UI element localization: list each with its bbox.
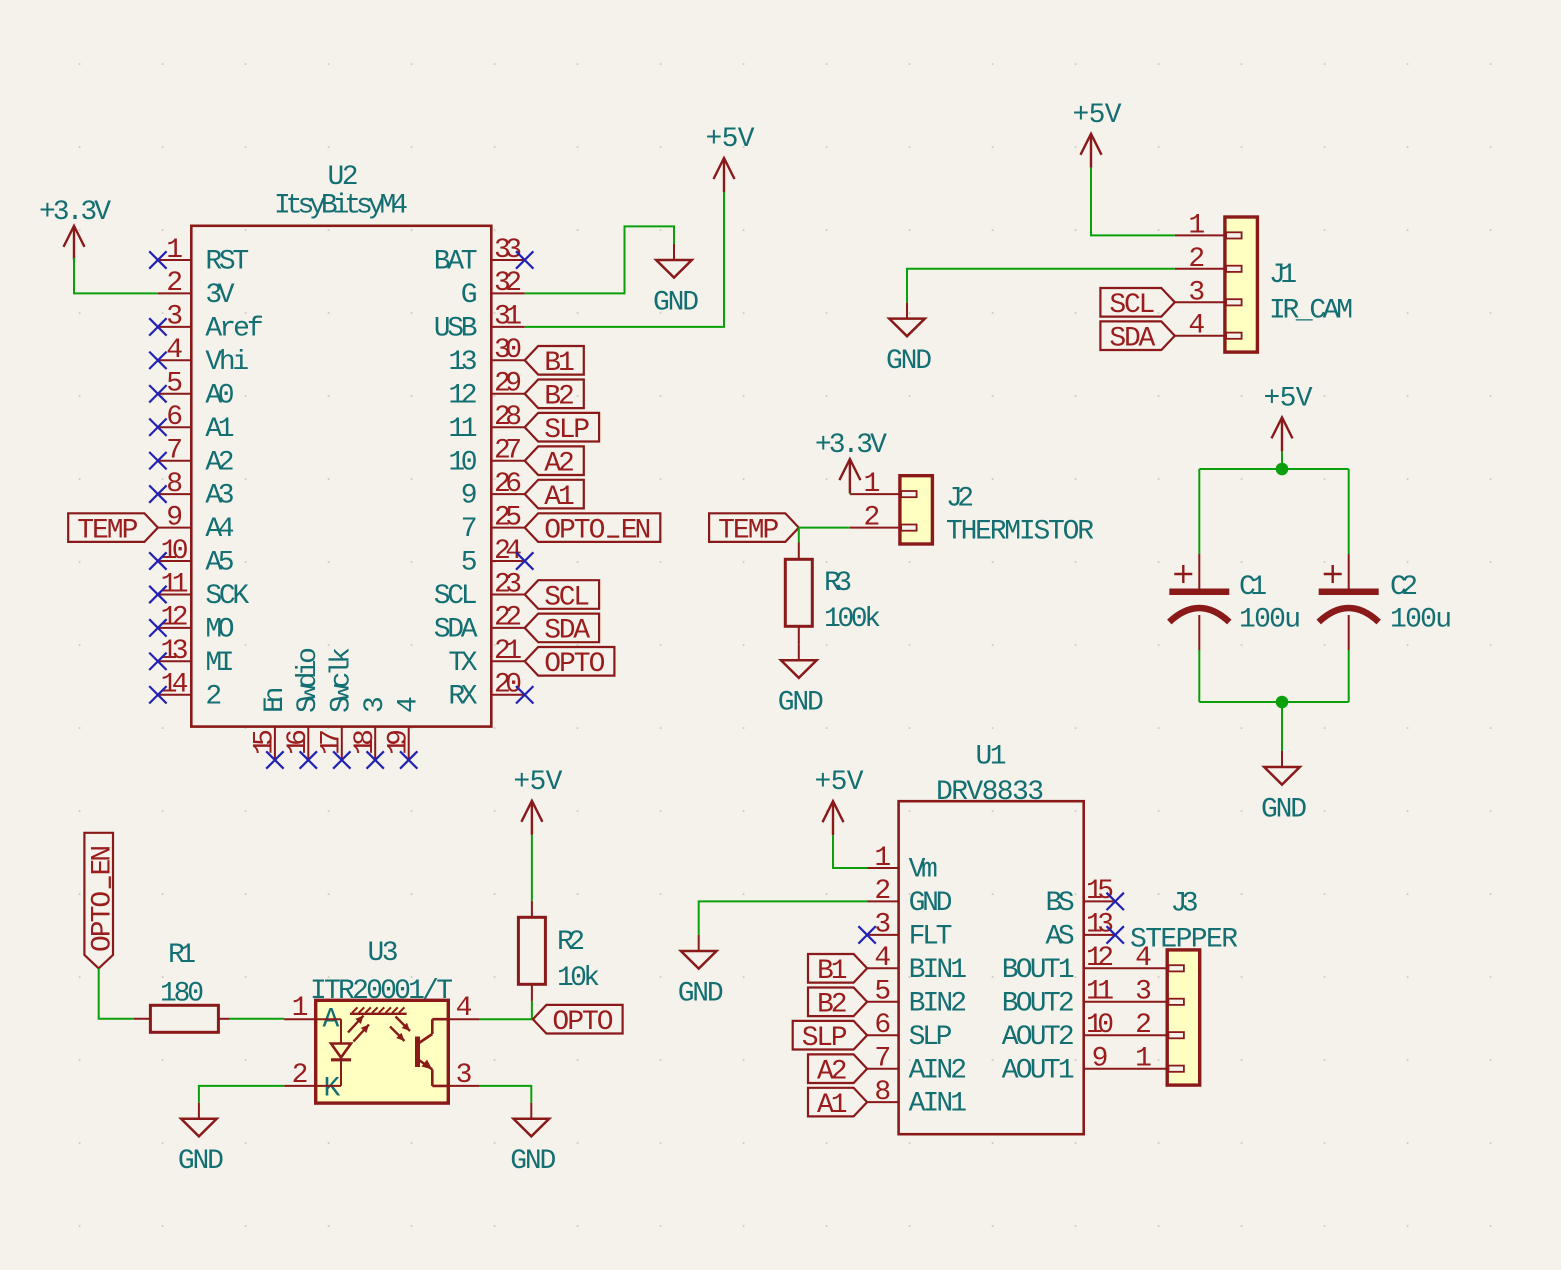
svg-text:A2: A2 [205,447,234,478]
global label SLP at U1 [793,1021,867,1054]
no-connect X at U2 pin 33 [516,251,533,268]
svg-text:THERMISTOR: THERMISTOR [946,517,1094,548]
svg-text:12: 12 [1086,943,1114,974]
svg-text:11: 11 [161,569,189,600]
U1 pin 10 AOUT2 [1002,1010,1168,1053]
svg-text:A1: A1 [817,1090,848,1121]
global label OPTO at U2 [525,647,615,680]
svg-text:2: 2 [1135,1010,1152,1041]
R1 right lead [218,1018,229,1020]
svg-text:4: 4 [166,335,183,366]
U2 pin 6 A1 [158,402,235,445]
svg-text:24: 24 [494,536,522,567]
svg-text:1: 1 [1135,1044,1152,1075]
svg-text:EN: EN [621,515,652,546]
svg-text:16: 16 [283,729,314,755]
ground at U3 pin 3 [510,1103,556,1177]
svg-text:OPTO: OPTO [87,891,118,952]
J1 pin 2 [1175,244,1225,275]
R3 bottom lead [798,626,800,644]
svg-text:BAT: BAT [434,247,478,278]
svg-text:4: 4 [394,696,425,713]
svg-text:10k: 10k [557,963,600,994]
U2 pin 4 Vhi [158,335,249,378]
svg-text:SLP: SLP [544,415,590,446]
svg-text:+3.3V: +3.3V [815,430,887,461]
svg-text:AOUT2: AOUT2 [1002,1022,1075,1053]
wire U3 pin 3 to GND [480,1086,532,1103]
wire +5V to U1 Vm [833,835,867,868]
J1 pin 1 [1175,210,1225,241]
svg-text:TEMP: TEMP [77,515,138,546]
U2 pin 11 SCK [158,569,249,612]
svg-text:9: 9 [461,481,478,512]
svg-text:B2: B2 [544,382,575,413]
no-connect X at U2 pin 6 [149,419,166,436]
global label OPTO at U3 [533,1005,623,1038]
wire U3 pin 4 to R2 [480,1001,532,1019]
U2 pin 15 En (bottom) [250,687,291,760]
wire +3.3V to U2 pin 2 [74,258,158,294]
J1 pin 3 [1175,277,1225,308]
svg-text:A2: A2 [544,449,575,480]
svg-text:GND: GND [1261,794,1307,825]
connector body J2 THERMISTOR [900,476,933,544]
global label A2 at U1 [808,1054,867,1087]
svg-text:15: 15 [1086,876,1114,907]
svg-text:3: 3 [1135,977,1152,1008]
global label SLP at U2 [525,413,599,446]
svg-text:7: 7 [461,514,478,545]
global label SDA at J1 [1100,321,1174,354]
U3 pin 4 (collector) [448,993,480,1024]
svg-text:G: G [461,280,478,311]
U2 pin 30 13 [448,335,524,378]
svg-text:BIN1: BIN1 [909,955,967,986]
svg-text:A1: A1 [544,482,575,513]
svg-text:MO: MO [205,615,234,646]
svg-text:SCL: SCL [434,581,478,612]
svg-text:13: 13 [161,636,189,667]
wire R2 to +5V [531,835,533,901]
wire J1 pin 2 to GND [907,269,1175,303]
U3 phototransistor [418,1019,449,1086]
svg-text:27: 27 [494,436,522,467]
svg-text:A1: A1 [205,414,234,445]
U2 pin 12 MO [158,603,235,646]
J3 pin 2 [1135,1010,1152,1041]
power +5V [1073,100,1122,168]
svg-text:33: 33 [494,235,522,266]
resistor R2 [518,917,545,984]
svg-text:6: 6 [166,402,183,433]
U1 pin 11 BOUT2 [1002,977,1168,1020]
svg-text:A5: A5 [205,548,234,579]
svg-text:100u: 100u [1390,605,1452,636]
U1 pin 15 BS [1046,876,1116,919]
svg-text:BS: BS [1046,888,1075,919]
wire U1 GND pin to GND [699,901,867,935]
svg-text:DRV8833: DRV8833 [936,777,1044,808]
no-connect X at U2 pin 24 [516,552,533,569]
global label SCL at J1 [1100,288,1174,321]
IC U2 ItsyBitsyM4 body [191,226,491,727]
wire top rail [1199,468,1348,470]
svg-text:OPTO: OPTO [552,1007,613,1038]
svg-text:3: 3 [1188,277,1205,308]
J2 pin 1 [850,469,900,500]
svg-text:9: 9 [1092,1044,1109,1075]
svg-text:C2: C2 [1390,572,1418,603]
power +3.3V [39,197,111,260]
R1 left lead [134,1018,151,1020]
U1 pin 1 Vm [867,843,938,886]
J3 pin 1 [1135,1044,1152,1075]
svg-text:1: 1 [874,843,891,874]
svg-text:28: 28 [494,402,522,433]
svg-text:4: 4 [1135,943,1152,974]
no-connect X at U1 BS [1107,893,1124,910]
svg-text:R2: R2 [557,927,585,958]
svg-text:2: 2 [205,681,222,712]
svg-text:32: 32 [494,268,522,299]
U2 pin 3 Aref [158,302,264,345]
wire C2 to bottom rail [1348,650,1350,702]
svg-text:4: 4 [1188,311,1205,342]
U2 pin 10 A5 [158,536,235,579]
no-connect X at U2 pin 15 [266,751,283,768]
U2 pin 14 2 [158,670,222,713]
svg-text:12: 12 [448,380,477,411]
no-connect X at U2 pin 20 [516,686,533,703]
svg-text:4: 4 [874,943,891,974]
svg-text:100k: 100k [824,604,881,635]
wire U3 pin 2 to GND [199,1086,284,1103]
svg-text:A0: A0 [205,380,234,411]
svg-text:BIN2: BIN2 [909,988,967,1019]
global label B1 at U2 [525,346,584,379]
svg-text:B1: B1 [817,956,848,987]
svg-text:2: 2 [1188,244,1205,275]
J2 pin 2 [850,503,900,534]
global label TEMP at U2 A4 [68,513,158,546]
svg-text:TEMP: TEMP [718,515,779,546]
svg-text:9: 9 [166,502,183,533]
svg-text:100u: 100u [1239,605,1301,636]
svg-text:A4: A4 [205,514,234,545]
no-connect X at U2 pin 10 [149,552,166,569]
U2 pin 20 RX [448,670,524,713]
no-connect X at U2 pin 16 [300,751,317,768]
svg-text:GND: GND [178,1146,224,1177]
R3 top lead [798,543,800,560]
svg-text:EN: EN [87,845,118,876]
svg-text:2: 2 [874,876,891,907]
wire +5V to U2 USB [525,192,724,327]
no-connect X at U2 pin 18 [367,751,384,768]
no-connect X at U2 pin 1 [149,251,166,268]
wire +5V to J1 pin 1 [1091,168,1175,236]
wire rail to C2 [1348,469,1350,554]
svg-text:5: 5 [461,548,478,579]
no-connect X at U2 pin 17 [333,751,350,768]
svg-text:26: 26 [494,469,522,500]
svg-text:GND: GND [886,346,932,377]
ground at U2 G pin [653,244,699,318]
ground at U3 pin 2 [178,1103,224,1177]
svg-text:J1: J1 [1269,260,1297,291]
svg-text:SCK: SCK [205,581,249,612]
wire TEMP to J2 pin 2 [799,527,850,529]
svg-text:SLP: SLP [802,1023,848,1054]
opto-isolator U3 ITR20001/T body [316,1000,449,1103]
global label A2 at U2 [525,446,584,479]
svg-text:+5V: +5V [706,124,755,155]
svg-text:1: 1 [166,235,183,266]
no-connect X at U2 pin 4 [149,352,166,369]
U2 pin 8 A3 [158,469,235,512]
wire bottom rail [1199,701,1348,703]
svg-text:GND: GND [778,688,824,719]
U3 LED emission arrows [348,1016,369,1042]
svg-text:17: 17 [317,729,348,755]
wire R1 to U3 pin 1 [230,1018,285,1020]
svg-text:7: 7 [874,1044,891,1075]
power +3.3V [815,430,887,493]
svg-text:3: 3 [360,696,391,713]
global label B1 at U1 [808,954,867,987]
svg-text:3V: 3V [205,280,234,311]
svg-text:MI: MI [205,648,234,679]
svg-text:GND: GND [678,978,724,1009]
svg-text:3: 3 [874,910,891,941]
U2 pin 24 5 [461,536,525,579]
svg-text:B1: B1 [544,348,575,379]
svg-text:BOUT2: BOUT2 [1002,988,1075,1019]
svg-text:180: 180 [160,979,204,1010]
U2 pin 23 SCL [434,569,525,612]
global label SDA at U2 [525,614,599,647]
svg-text:B2: B2 [817,990,848,1021]
svg-text:1: 1 [1188,210,1205,241]
svg-text:10: 10 [1086,1010,1114,1041]
U1 pin 12 BOUT1 [1002,943,1168,986]
svg-text:+5V: +5V [1073,100,1122,131]
global label B2 at U2 [525,380,584,413]
wire TEMP node down to R3 [798,528,800,543]
svg-text:3: 3 [166,302,183,333]
U2 pin 16 Swdio (bottom) [283,647,324,760]
wire C1 to bottom rail [1198,650,1200,702]
ground below C1 C2 [1261,751,1307,825]
no-connect X at U2 pin 19 [400,751,417,768]
U2 pin 18 3 (bottom) [350,696,391,760]
junction top rail [1276,463,1289,476]
no-connect X at U2 pin 14 [149,686,166,703]
svg-text:RST: RST [205,247,249,278]
svg-text:A2: A2 [817,1057,848,1088]
power +5V [513,767,562,835]
U1 pin 13 AS [1046,910,1116,953]
U2 pin 13 MI [158,636,235,679]
svg-text:+5V: +5V [815,767,864,798]
svg-text:En: En [260,687,291,713]
svg-text:OPTO: OPTO [544,649,605,680]
capacitor C2 [1319,554,1379,650]
ground at U1 GND pin [678,935,724,1009]
capacitor C1 [1169,554,1229,650]
wire rail to C1 [1198,469,1200,554]
svg-text:SCL: SCL [1109,290,1155,321]
svg-text:Swdio: Swdio [293,647,324,713]
svg-text:U1: U1 [976,742,1007,773]
svg-text:8: 8 [874,1077,891,1108]
svg-text:USB: USB [434,314,478,345]
R2 bottom lead [531,984,533,1001]
J3 pin 4 [1135,943,1152,974]
no-connect X at U1 AS [1107,926,1124,943]
junction bottom rail [1276,696,1289,709]
svg-text:ITR20001/T: ITR20001/T [310,976,453,1007]
resistor R1 [150,1005,218,1032]
U2 pin 21 TX [448,636,524,679]
svg-text:30: 30 [494,335,522,366]
U1 pin 4 BIN1 [867,943,967,986]
svg-text:Swclk: Swclk [327,647,358,713]
svg-text:13: 13 [1086,910,1114,941]
svg-text:OPTO: OPTO [544,515,605,546]
svg-text:AIN2: AIN2 [909,1055,967,1086]
wire bottom rail to GND [1281,702,1283,751]
no-connect X at U2 pin 12 [149,619,166,636]
IC U1 DRV8833 body [899,801,1084,1134]
global label B2 at U1 [808,988,867,1021]
U1 pin 3 FLT [867,910,952,953]
U2 pin 28 11 [448,402,524,445]
svg-text:31: 31 [494,302,522,333]
U2 pin 19 4 (bottom) [384,696,425,760]
svg-text:5: 5 [166,369,183,400]
U2 pin 31 USB [434,302,525,345]
wire +3.3V to J2 pin 1 [849,493,851,494]
global label SCL at U2 [525,580,599,613]
svg-text:TX: TX [448,648,477,679]
svg-text:RX: RX [448,681,477,712]
svg-text:+3.3V: +3.3V [39,197,111,228]
svg-text:AIN1: AIN1 [909,1089,967,1120]
svg-text:AOUT1: AOUT1 [1002,1055,1075,1086]
svg-text:10: 10 [448,447,477,478]
svg-text:FLT: FLT [909,922,953,953]
U2 pin 33 BAT [434,235,525,278]
global label OPTO_EN (vertical) [84,833,118,969]
svg-text:U3: U3 [368,938,399,969]
svg-text:Vhi: Vhi [205,347,249,378]
U1 pin 2 GND [867,876,952,919]
svg-text:1: 1 [863,469,880,500]
wire +5V to cap rail [1281,451,1283,469]
svg-text:3: 3 [456,1060,473,1091]
svg-text:R3: R3 [824,568,852,599]
U1 pin 9 AOUT1 [1002,1044,1168,1087]
J3 pin 3 [1135,977,1152,1008]
U2 pin 17 Swclk (bottom) [317,647,358,760]
svg-text:22: 22 [494,603,522,634]
no-connect X at U2 pin 7 [149,452,166,469]
svg-text:2: 2 [166,268,183,299]
wire U2 G to GND [525,226,674,293]
svg-text:25: 25 [494,502,522,533]
svg-text:8: 8 [166,469,183,500]
connector body J3 STEPPER [1167,950,1200,1085]
no-connect X at U2 pin 13 [149,653,166,670]
svg-text:15: 15 [250,729,281,755]
svg-text:11: 11 [1086,977,1114,1008]
power +5V [706,124,755,192]
svg-text:SDA: SDA [1109,324,1155,355]
svg-text:SDA: SDA [434,615,478,646]
svg-text:12: 12 [161,603,189,634]
svg-text:SCL: SCL [544,582,590,613]
ground at J1 pin 2 [886,303,932,377]
svg-text:J3: J3 [1171,889,1199,920]
svg-text:GND: GND [510,1146,556,1177]
U2 pin 32 G [461,268,525,311]
svg-text:7: 7 [166,436,183,467]
no-connect X at U2 pin 5 [149,385,166,402]
svg-text:Aref: Aref [205,314,263,345]
global label OPTO_EN at U2 [525,513,661,546]
U2 pin 27 10 [448,436,524,479]
power +5V [815,767,864,835]
U2 pin 29 12 [448,369,524,412]
U2 pin 5 A0 [158,369,235,412]
svg-text:6: 6 [874,1010,891,1041]
svg-text:14: 14 [161,670,189,701]
svg-text:GND: GND [909,888,953,919]
U3 pin 3 (emitter) [448,1060,480,1091]
svg-text:SLP: SLP [909,1022,953,1053]
svg-text:5: 5 [874,977,891,1008]
no-connect X at U2 pin 3 [149,318,166,335]
R2 top lead [531,901,533,917]
svg-text:GND: GND [653,287,699,318]
svg-text:29: 29 [494,369,522,400]
U2 pin 9 A4 [158,502,235,545]
U3 slot hatch [350,1007,407,1013]
svg-text:IR_CAM: IR_CAM [1269,296,1353,327]
svg-text:18: 18 [350,729,381,755]
U3 pin 2 K [284,1060,340,1105]
svg-text:10: 10 [161,536,189,567]
svg-text:+5V: +5V [1264,383,1313,414]
svg-text:+5V: +5V [513,767,562,798]
no-connect X at U1 FLT [858,926,875,943]
svg-text:SDA: SDA [544,616,590,647]
svg-text:4: 4 [456,993,473,1024]
svg-text:AS: AS [1046,922,1075,953]
U2 pin 7 A2 [158,436,235,479]
J1 pin 4 [1175,311,1225,342]
U2 pin 2 3V [158,268,235,311]
ground below R3 [778,644,824,718]
svg-text:21: 21 [494,636,522,667]
wire OPTO_EN down to R1 [99,968,134,1018]
U2 pin 26 9 [461,469,525,512]
no-connect X at U2 pin 8 [149,485,166,502]
svg-text:23: 23 [494,569,522,600]
svg-text:20: 20 [494,670,522,701]
